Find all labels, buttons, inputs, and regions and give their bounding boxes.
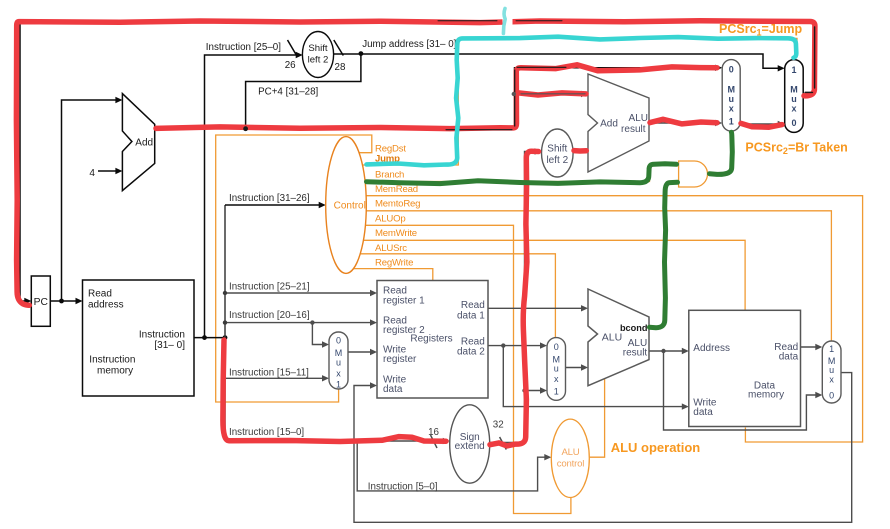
mux MemtoReg Mux (1/0) — [822, 341, 841, 403]
register PC — [31, 276, 50, 326]
wire ALUSrc mux output to ALU input 2 — [566, 367, 583, 369]
svg-text:Instruction [25–21]: Instruction [25–21] — [229, 282, 310, 293]
wire Instruction[5-0]: to ALU control — [357, 441, 546, 491]
ORANGE-WIRES — [216, 38, 863, 513]
svg-text:PCSrc1=Jump: PCSrc1=Jump — [719, 22, 803, 38]
wire red highlight: Instruction[15-0] to Sign extend — [223, 340, 446, 442]
node junction jump address — [359, 51, 364, 56]
wire cyan stray stroke above top line — [503, 9, 505, 34]
wire Jump address[31-0] to jump mux input 1 — [334, 54, 779, 68]
wire ALUOp: Control to ALU control — [365, 225, 571, 513]
wire ALUSrc: Control to ALUSrc mux select — [360, 254, 555, 337]
svg-text:Branch: Branch — [375, 170, 404, 181]
svg-text:memory: memory — [748, 389, 784, 400]
BLACK-WIRES — [20, 23, 815, 450]
mux branch Mux (0/1) — [722, 60, 740, 132]
node junction Read data 2 — [501, 343, 505, 347]
svg-text:M: M — [335, 348, 343, 358]
svg-text:data: data — [693, 407, 713, 418]
wire Instruction[25-21]: bus to Read register 1 — [225, 292, 372, 294]
GRAY-WIRES — [225, 91, 852, 523]
wire red highlight: Sign extend to Shift left 2 to Add — [490, 151, 539, 446]
slash 26-bit width mark — [288, 40, 297, 55]
svg-text:ALU: ALU — [629, 113, 648, 124]
slash 32-bit width mark — [500, 437, 507, 450]
svg-text:PC+4 [31–28]: PC+4 [31–28] — [258, 86, 318, 97]
svg-text:Instruction [5–0]: Instruction [5–0] — [368, 482, 438, 493]
wire RegWrite: Control to Registers top — [354, 269, 433, 280]
svg-text:Read: Read — [461, 300, 485, 311]
wire PC+4[31-28] to jump address join — [246, 53, 361, 128]
node junction PC output — [59, 299, 64, 304]
svg-text:result: result — [623, 348, 648, 359]
svg-text:ALU operation: ALU operation — [611, 440, 701, 455]
wire mem-to-reg mux output back to Write data — [354, 373, 852, 523]
svg-text:x: x — [336, 369, 341, 379]
svg-text:Instruction: Instruction — [89, 355, 135, 366]
wire ALU-operation: ALU control to ALU — [589, 379, 604, 458]
control unit Control — [326, 137, 367, 274]
wire Jump: Control to jump mux select (under cyan) — [363, 38, 798, 165]
shifter Shift-left-2 (branch) — [542, 129, 574, 177]
svg-text:1: 1 — [554, 387, 559, 397]
memory Instruction-memory — [83, 280, 195, 396]
mux ALUSrc Mux (0/1) — [547, 338, 566, 401]
node junction ALU result — [661, 349, 665, 353]
svg-text:ALU: ALU — [561, 447, 579, 458]
wire Instruction[15-11]: bus to RegDst mux input 1 — [225, 377, 324, 379]
svg-text:left 2: left 2 — [308, 55, 329, 66]
gate AND (branch taken) — [679, 161, 708, 187]
wire green highlight: Branch signal from Control to AND gate — [367, 164, 677, 184]
svg-text:data: data — [779, 351, 799, 362]
svg-text:MemWrite: MemWrite — [375, 228, 417, 239]
svg-text:1: 1 — [829, 344, 834, 354]
wire black overdraw: PC+4 corner visible through red — [514, 70, 516, 126]
wire Read data 1 to ALU input 1 — [488, 307, 583, 309]
mux jump Mux (1/0) — [785, 60, 804, 133]
wire constant 4 to Add — [98, 170, 117, 172]
wire red highlight: branch mux to jump mux 0 — [741, 123, 782, 127]
wire Instruction[31-26] to Control — [225, 204, 320, 206]
svg-text:bcond: bcond — [620, 323, 648, 333]
svg-text:x: x — [729, 103, 734, 113]
svg-text:MemtoReg: MemtoReg — [375, 199, 420, 210]
wire RegDst mux output to Write register — [348, 351, 372, 353]
wire Read data 2 branch to Data memory Write data — [503, 346, 683, 407]
svg-text:Shift: Shift — [308, 43, 328, 54]
wire PC to instruction memory Read address — [50, 300, 77, 302]
node junction bus taps — [223, 291, 227, 295]
svg-text:Instruction [15–11]: Instruction [15–11] — [229, 368, 309, 379]
svg-text:RegWrite: RegWrite — [375, 257, 413, 268]
wire ALU result to Data memory Address — [649, 350, 683, 352]
svg-text:Instruction [20–16]: Instruction [20–16] — [229, 310, 310, 321]
wire Instruction[20-16] branch down to RegDst mux input 0 — [312, 323, 323, 345]
wire PC to Add top input — [62, 100, 117, 301]
svg-text:0: 0 — [729, 65, 734, 75]
wire PC+4 to Add-result top input (under red) — [515, 93, 583, 95]
adder Add-ALU-result (branch target) — [588, 74, 649, 172]
wire instruction field bus vertical — [224, 205, 226, 441]
wire green highlight: bcond from ALU to AND gate — [650, 182, 678, 327]
svg-text:u: u — [336, 358, 341, 368]
wire red highlight: PC+4 to branch adder input — [516, 93, 586, 95]
svg-text:x: x — [829, 375, 834, 385]
svg-text:address: address — [88, 299, 124, 310]
svg-text:left 2: left 2 — [546, 155, 568, 166]
svg-text:data 1: data 1 — [457, 311, 485, 322]
svg-text:u: u — [829, 365, 834, 375]
wire Instruction[25-0] from bus to Shift left 2 — [205, 55, 298, 338]
svg-text:0: 0 — [336, 336, 341, 346]
wire red highlight: Add result to branch mux 1 — [650, 119, 717, 124]
svg-text:u: u — [554, 363, 559, 373]
svg-text:u: u — [791, 94, 797, 104]
svg-text:data: data — [383, 384, 403, 395]
svg-text:Address: Address — [693, 343, 730, 354]
adder Add (PC+4) — [122, 94, 154, 191]
wire Branch: Control to AND gate (under green) — [365, 164, 679, 181]
svg-text:register 1: register 1 — [383, 295, 425, 306]
svg-text:0: 0 — [791, 118, 796, 128]
wire branch mux output to jump mux input 0 (under red) — [740, 123, 779, 125]
svg-text:x: x — [791, 103, 796, 113]
svg-text:16: 16 — [428, 427, 439, 438]
node junction Instruction[5-0] tap — [355, 439, 359, 443]
svg-text:result: result — [621, 124, 646, 135]
shifter Shift-left-2 (jump) — [302, 32, 333, 78]
svg-text:4: 4 — [89, 168, 95, 179]
svg-text:26: 26 — [285, 60, 296, 71]
register file Registers — [377, 281, 488, 399]
wire MemWrite: Control to Data memory top — [363, 240, 745, 309]
node junction PC+4 tap for jump address — [243, 126, 248, 131]
wire MemtoReg: Control to mem-to-reg mux select — [366, 211, 831, 341]
wire red highlight: shift output to Add input — [574, 148, 586, 154]
svg-text:ALU: ALU — [602, 332, 622, 344]
svg-text:Jump address [31– 0]: Jump address [31– 0] — [362, 39, 456, 50]
memory Data-memory — [689, 310, 801, 426]
svg-text:0: 0 — [554, 342, 559, 352]
slash 28-bit width mark — [334, 40, 344, 56]
svg-text:Registers: Registers — [410, 334, 452, 345]
svg-text:[31– 0]: [31– 0] — [154, 340, 185, 351]
wire ALU result to mem-to-reg mux input 0 — [664, 351, 817, 430]
alu ALU (main) — [588, 289, 649, 386]
svg-text:register: register — [383, 354, 417, 365]
svg-text:Add: Add — [135, 138, 153, 149]
wire Read data to mem-to-reg mux input 1 — [801, 346, 817, 348]
svg-text:u: u — [728, 94, 734, 104]
wire green highlight: AND gate output to branch mux select — [710, 132, 733, 174]
svg-text:extend: extend — [455, 441, 485, 452]
wire Instruction[20-16]: bus to Read register 2 — [225, 322, 372, 324]
wire Read data 2 to ALUSrc mux input 0 — [488, 345, 542, 347]
svg-text:PCSrc2=Br Taken: PCSrc2=Br Taken — [745, 140, 847, 156]
mux RegDst Mux (0/1) — [329, 332, 348, 389]
wire red highlight: PC+4 from Add to branch mux 0 — [156, 65, 717, 129]
wire red highlight: jump mux output loop to PC — [16, 21, 815, 305]
svg-text:control: control — [557, 459, 584, 470]
control unit ALU-control — [551, 419, 589, 497]
wire Sign extend branch to ALUSrc mux input 1 — [525, 390, 542, 392]
wire Add result to branch mux input 1 (under red) — [649, 122, 717, 124]
svg-text:Read: Read — [88, 288, 112, 299]
svg-text:Shift: Shift — [547, 143, 567, 154]
svg-text:memory: memory — [97, 365, 133, 376]
node junction on Instruction[20-16] — [310, 320, 314, 324]
svg-text:Add: Add — [600, 118, 618, 129]
svg-text:x: x — [554, 374, 559, 384]
wire Instruction[31-0] out of instruction memory — [194, 337, 225, 339]
slash 16-bit width mark — [431, 435, 438, 448]
eraser white patch on red top line — [503, 16, 513, 28]
node junction PC+4 for branch adder — [512, 92, 516, 96]
svg-text:Instruction [31–26]: Instruction [31–26] — [229, 193, 310, 204]
wire RegDst: Control to write-register mux select — [216, 135, 372, 402]
node PC+4 junction dot over red — [243, 126, 248, 131]
wire black overdraw: jump mux output visible through red — [805, 91, 813, 93]
svg-text:Control: Control — [334, 201, 366, 212]
svg-text:ALUSrc: ALUSrc — [375, 243, 407, 254]
svg-text:Instruction [15–0]: Instruction [15–0] — [229, 427, 304, 438]
wire MemRead: Control to Data memory bottom — [366, 196, 862, 442]
svg-text:Instruction [25–0]: Instruction [25–0] — [206, 42, 281, 53]
svg-text:28: 28 — [335, 62, 346, 73]
svg-text:MemRead: MemRead — [375, 184, 418, 195]
svg-text:0: 0 — [829, 390, 834, 400]
svg-text:1: 1 — [729, 116, 734, 126]
node junction sign-extend branch — [522, 388, 526, 392]
svg-text:Instruction: Instruction — [139, 330, 185, 341]
svg-text:PC: PC — [34, 297, 49, 308]
svg-text:data 2: data 2 — [457, 347, 485, 358]
svg-text:1: 1 — [336, 380, 341, 390]
wire Sign extend output up to Shift left 2 (under red) — [490, 152, 536, 443]
node junction instruction bus — [202, 335, 207, 340]
extender Sign-extend — [450, 405, 490, 483]
wire cyan highlight: Jump signal from Control to jump mux select — [367, 37, 797, 166]
svg-text:ALUOp: ALUOp — [375, 214, 405, 225]
wire jump mux output loop back to PC (under red) — [20, 23, 815, 302]
wire Instruction[15-0]: bus to Sign extend (under red) — [225, 440, 444, 442]
svg-text:32: 32 — [493, 420, 504, 431]
wire PC+4 from Add to branch mux input 0 (under red) — [155, 68, 717, 129]
svg-text:1: 1 — [791, 65, 796, 75]
